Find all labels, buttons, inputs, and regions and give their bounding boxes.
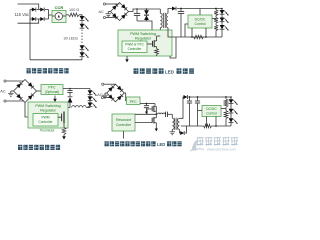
label CCR xyxy=(55,5,64,10)
PFC box xyxy=(41,85,63,95)
diode D1 xyxy=(30,8,36,12)
wire output rail bottom xyxy=(181,125,231,127)
wire secondary top xyxy=(168,9,172,14)
junction xyxy=(180,8,182,10)
caption two-stage PFC isolated LED driver xyxy=(105,141,182,147)
label AC xyxy=(0,90,6,94)
wire xyxy=(81,21,83,24)
caption non-isolated buck driver xyxy=(18,145,60,150)
clamp diode Z1 xyxy=(144,8,149,21)
regulator box outline xyxy=(118,30,172,56)
wire bridge out xyxy=(37,90,42,92)
label AC xyxy=(99,10,105,14)
svg-text:Control: Control xyxy=(206,111,217,115)
wire bridge to PFC xyxy=(124,93,126,101)
label PWM or PFC Controller xyxy=(125,43,144,51)
transformer T2 secondary xyxy=(178,118,180,129)
wire half-bridge node xyxy=(156,114,158,116)
watermark logo xyxy=(190,137,238,151)
label 115 Vac xyxy=(15,12,29,17)
junction xyxy=(225,96,227,98)
svg-text:(Optional): (Optional) xyxy=(45,90,59,94)
LED D14 xyxy=(88,96,97,101)
label 100 ohm xyxy=(69,8,79,12)
caption single-stage offline LED driver xyxy=(134,68,195,74)
svg-text:PWM: PWM xyxy=(41,115,49,119)
svg-text:Controller: Controller xyxy=(38,120,53,124)
sense resistor R7 xyxy=(62,123,66,135)
svg-text:115 Vac: 115 Vac xyxy=(15,12,29,17)
wire xyxy=(104,97,112,99)
sense resistor R8 xyxy=(204,124,212,128)
wire secondary rail xyxy=(177,8,222,10)
wire xyxy=(6,80,24,82)
gate wire Q3 xyxy=(147,109,152,114)
wire xyxy=(221,15,223,18)
wire clamp rail xyxy=(137,21,152,30)
wire controller bottom stub xyxy=(123,131,125,139)
MOSFET Q3 xyxy=(152,104,156,115)
wire left vertical bus xyxy=(29,10,31,60)
diode D16 xyxy=(184,95,188,99)
AC terminal bottom xyxy=(101,96,103,98)
wire bridge bottom return xyxy=(25,103,28,118)
wire input bottom loop xyxy=(18,19,39,23)
wire xyxy=(104,83,115,85)
wire PFC out rail xyxy=(63,88,90,90)
AC terminal bottom xyxy=(103,16,105,18)
LED D10 xyxy=(220,18,229,23)
MOSFET Q1 xyxy=(147,36,160,47)
wire box to ladder xyxy=(212,18,216,20)
inductor L1 xyxy=(72,106,91,108)
svg-text:LED: LED xyxy=(157,142,165,147)
wire bottom return xyxy=(30,59,82,61)
diode D2 xyxy=(40,8,48,12)
earth ground xyxy=(106,12,112,17)
wire xyxy=(230,113,232,118)
svg-text:PFC: PFC xyxy=(130,100,138,104)
wire feedback loop xyxy=(170,37,176,58)
ballast resistor R9 xyxy=(224,97,228,111)
wire rectifier join xyxy=(185,126,187,133)
label DC/DC Control xyxy=(195,17,206,25)
wire xyxy=(221,22,223,25)
DC-DC control box U2 xyxy=(188,15,212,28)
wire xyxy=(37,9,41,11)
wire xyxy=(221,30,223,38)
wire xyxy=(106,17,117,19)
label DC/DC Control xyxy=(206,107,217,115)
svg-text:DC/DC: DC/DC xyxy=(195,17,206,21)
diode D4 xyxy=(40,17,48,21)
transformer T2 core xyxy=(175,118,177,130)
wire feedback left xyxy=(185,24,188,37)
regulator box outline xyxy=(28,102,68,128)
ballast resistor R5 xyxy=(214,18,218,26)
ground arrow below box xyxy=(125,56,128,62)
LED D11 xyxy=(220,25,229,30)
wire M2 source ground xyxy=(155,129,158,132)
LED D19 xyxy=(229,109,238,114)
wire LED string return xyxy=(81,58,83,60)
wire xyxy=(81,51,83,53)
svg-text:PWM Switching: PWM Switching xyxy=(35,104,60,108)
wire secondary return xyxy=(168,28,222,37)
bus capacitor C3 xyxy=(144,104,149,115)
output capacitor C5b xyxy=(195,96,200,126)
PFC box 2 xyxy=(127,97,141,105)
transformer T1 core xyxy=(163,13,165,28)
AC terminal top xyxy=(103,3,105,5)
wire xyxy=(89,106,91,109)
wire box pin xyxy=(215,117,217,127)
ballast resistor R4 xyxy=(214,9,218,18)
ballast resistor R6 xyxy=(214,25,218,37)
LED D6 xyxy=(80,24,89,29)
wire rail to primary xyxy=(159,9,161,14)
label Resonant Controller xyxy=(116,118,132,127)
wire to primary xyxy=(167,113,172,115)
ground arrow xyxy=(62,135,66,140)
capacitor C2 xyxy=(178,9,184,38)
svg-text:AC: AC xyxy=(99,10,105,14)
CCR current-source symbol xyxy=(52,13,66,20)
wire right vertical of bridge xyxy=(48,10,50,20)
wire controller to gate Q4 xyxy=(135,122,152,124)
diode D17 xyxy=(180,131,184,135)
ballast resistor R10 xyxy=(224,111,228,127)
series capacitor C4 xyxy=(165,112,167,117)
wire input top loop xyxy=(18,4,39,10)
wire xyxy=(6,100,24,102)
label PWM Switching Regulator xyxy=(130,32,156,40)
svg-text:AC: AC xyxy=(0,90,6,94)
wire box pin xyxy=(205,28,207,38)
earth ground xyxy=(8,91,14,96)
wire xyxy=(106,3,120,5)
wire bridge out xyxy=(129,9,161,12)
label PFC Optional xyxy=(45,86,59,94)
label PFC xyxy=(130,100,138,104)
wire box to ladder xyxy=(221,108,226,110)
diode D3 xyxy=(30,17,36,21)
resonant controller box xyxy=(112,114,135,131)
wire primary to MOSFET xyxy=(159,28,161,36)
wire secondary top xyxy=(180,97,184,118)
svg-text:Resonant: Resonant xyxy=(116,118,131,122)
label PWM Controller xyxy=(38,115,53,123)
wire box feedback xyxy=(198,110,203,112)
wire xyxy=(230,123,232,126)
label PWM Switching Regulator xyxy=(35,104,60,112)
svg-text:Regulator: Regulator xyxy=(135,37,152,41)
label 30 LEDs xyxy=(64,36,79,40)
LED D7 xyxy=(80,45,89,50)
svg-text:LED: LED xyxy=(165,70,175,75)
transformer T2 ground xyxy=(170,132,176,135)
LED D9 xyxy=(220,8,229,16)
resistor R1 xyxy=(69,13,80,17)
junction xyxy=(215,8,217,10)
transformer T1 secondary xyxy=(166,13,168,27)
transformer T2 primary xyxy=(172,114,174,132)
bridge rectifier BR2 xyxy=(14,80,37,103)
wire xyxy=(230,104,232,109)
svg-text:Thermistor: Thermistor xyxy=(39,129,55,133)
wire xyxy=(37,18,41,20)
MOSFET Q4 xyxy=(152,114,156,128)
wire box top pin xyxy=(199,9,201,16)
svg-text:30 LEDs: 30 LEDs xyxy=(64,36,79,40)
capacitor C6 xyxy=(67,88,72,97)
sense resistor R2 xyxy=(155,47,159,56)
AC terminal top xyxy=(4,80,6,82)
svg-text:CCR: CCR xyxy=(55,5,64,10)
freewheel diode D12 xyxy=(68,97,73,108)
bridge rectifier BR3 xyxy=(107,84,125,102)
label AC xyxy=(97,93,103,97)
svg-text:PWM Switching: PWM Switching xyxy=(130,32,156,36)
resonant inductor L2 xyxy=(158,113,166,114)
bridge rectifier BR1 xyxy=(111,3,129,21)
AC terminal bottom xyxy=(4,100,6,102)
wire CCR to resistor xyxy=(66,14,69,16)
svg-text:www.elecfans.com: www.elecfans.com xyxy=(207,148,236,152)
label thermistor xyxy=(39,129,55,133)
wire secondary bottom xyxy=(179,129,182,133)
wire xyxy=(89,95,91,97)
wire xyxy=(89,101,91,103)
svg-text:Regulator: Regulator xyxy=(40,108,56,112)
svg-text:Controller: Controller xyxy=(116,123,132,127)
wire PFC out xyxy=(140,103,155,105)
ground arrow xyxy=(53,96,57,103)
wire controller to node xyxy=(135,113,156,115)
wire to CCR xyxy=(49,14,53,16)
caption non-isolated linear driver xyxy=(27,68,69,73)
LED D5 xyxy=(80,16,89,21)
earth ground xyxy=(102,93,108,98)
svg-text:Control: Control xyxy=(195,22,206,26)
junction xyxy=(146,103,148,105)
svg-text:100 Ω: 100 Ω xyxy=(69,8,79,12)
LED D18 xyxy=(229,96,238,105)
wire switch node xyxy=(64,108,70,112)
diode D8 xyxy=(172,7,176,11)
output capacitor C5a xyxy=(187,96,192,126)
CCR box U1 xyxy=(52,11,66,23)
wire output rail top xyxy=(188,96,231,98)
sense resistor R3 xyxy=(194,35,204,39)
AC terminal top xyxy=(102,83,104,85)
capacitor C1 xyxy=(134,8,140,21)
wire to LED string xyxy=(79,15,82,16)
watermark url xyxy=(207,148,236,152)
DC-DC control box U3 xyxy=(202,106,221,117)
controller box xyxy=(122,41,147,53)
svg-text:DC/DC: DC/DC xyxy=(206,107,217,111)
LED D19b xyxy=(229,118,238,123)
MOSFET Q2 xyxy=(58,112,64,124)
wire box pin xyxy=(191,28,193,38)
svg-text:Controller: Controller xyxy=(128,47,143,51)
transformer T1 primary xyxy=(160,13,162,27)
LED D13 xyxy=(88,89,97,96)
LED D7b xyxy=(80,52,89,57)
controller box xyxy=(33,114,58,127)
wire dotted ellipsis xyxy=(81,30,83,45)
wire box pin xyxy=(206,117,208,127)
LED D15 xyxy=(88,103,97,108)
